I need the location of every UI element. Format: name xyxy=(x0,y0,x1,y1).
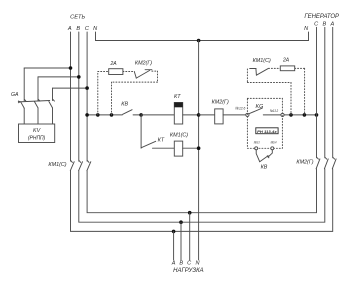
node load tap B xyxy=(179,220,183,224)
relay KV (РНПП) box xyxy=(19,124,55,143)
node fuse2 branch left xyxy=(289,113,293,117)
svg-text:КТ: КТ xyxy=(158,138,165,144)
wire KT coil to N xyxy=(183,114,199,116)
fuse FU2 2А xyxy=(280,58,294,71)
svg-text:А: А xyxy=(67,26,72,32)
svg-text:GA: GA xyxy=(11,92,19,98)
svg-text:КМ1(С): КМ1(С) xyxy=(170,133,188,139)
svg-text:КМ2(Г): КМ2(Г) xyxy=(296,160,313,166)
wire mains phase C vertical upper xyxy=(86,32,88,161)
node row2 on N xyxy=(197,146,201,150)
wire mains phase B vertical upper xyxy=(78,32,80,161)
svg-text:В: В xyxy=(323,22,327,28)
node row1 on N xyxy=(197,113,201,117)
node load tap A xyxy=(172,230,176,234)
svg-text:НАГРУЗКА: НАГРУЗКА xyxy=(173,268,203,274)
contactor КМ1(С) pole B xyxy=(79,161,83,171)
wire GA tap phase B xyxy=(38,76,79,78)
fuse FU1 2А xyxy=(109,61,123,75)
node row1 on generator C xyxy=(315,113,319,117)
wire generator phase A vertical xyxy=(332,27,334,158)
contactor КМ2(Г) pole B xyxy=(324,157,328,168)
svg-text:В: В xyxy=(179,261,183,267)
wire GA tap phase A xyxy=(24,67,70,69)
node fuse2 branch right xyxy=(303,113,307,117)
svg-text:В: В xyxy=(76,26,80,32)
svg-text:№9.4: №9.4 xyxy=(271,140,277,144)
svg-text:С: С xyxy=(85,26,90,32)
terminal circle 9.3 xyxy=(255,147,258,150)
contactor КМ2(Г) pole C xyxy=(316,157,320,168)
svg-text:СЕТЬ: СЕТЬ xyxy=(70,15,85,21)
wire control row 1 from C line xyxy=(87,114,122,116)
wire GA tap phase C xyxy=(53,87,88,89)
contact КТ (delayed) xyxy=(141,141,174,148)
load phase labels А В С N xyxy=(171,261,201,267)
generator phase labels N С В А xyxy=(304,22,334,32)
wire neutral N vertical to load xyxy=(198,41,200,261)
wire mains phase A vertical upper xyxy=(70,32,72,161)
contactor coil КМ1(С) xyxy=(170,133,188,156)
svg-text:КВ: КВ xyxy=(261,164,268,170)
svg-text:КМ1(С): КМ1(С) xyxy=(48,162,66,168)
dashed wires of generator-side fuse loop xyxy=(247,68,304,115)
terminal circle 12.6 xyxy=(246,113,249,116)
node tap B xyxy=(77,75,81,79)
switch GA mechanical link xyxy=(18,100,50,103)
svg-text:КМ2(Г): КМ2(Г) xyxy=(212,100,229,106)
contactor КМ1(С) pole C xyxy=(87,161,91,171)
node N junction xyxy=(197,39,201,43)
wire load stub B xyxy=(180,222,182,260)
node fuse branch left xyxy=(96,113,100,117)
switch GA pole 3 xyxy=(49,88,55,124)
wire bus phase A (bottom) xyxy=(71,169,333,232)
contact КВ (normally open) xyxy=(123,110,141,115)
wire mains neutral N down then across to generator xyxy=(96,32,309,41)
svg-text:КВ: КВ xyxy=(121,102,128,108)
svg-text:№13.2: №13.2 xyxy=(270,109,279,113)
svg-text:KG: KG xyxy=(256,104,264,110)
svg-text:С: С xyxy=(187,261,192,267)
node tap C xyxy=(85,86,89,90)
svg-text:(РНПП): (РНПП) xyxy=(28,136,46,142)
device label РН 113 box xyxy=(256,128,278,134)
timer coil КТ xyxy=(174,94,183,124)
relay КВ (РН 113) dashed enclosure xyxy=(247,98,282,148)
switch GA pole 1 xyxy=(21,68,27,124)
svg-text:№9.3: №9.3 xyxy=(254,140,260,144)
wire KM2 coil to KG terminal xyxy=(223,114,246,116)
svg-text:КТ: КТ xyxy=(174,94,181,100)
node tap A xyxy=(69,66,73,70)
dashed wires of mains-side fuse loop xyxy=(98,71,158,115)
svg-text:№12.6: №12.6 xyxy=(235,105,246,110)
contactor КМ2(Г) pole A xyxy=(332,157,336,168)
contact КВ changeover under РН113 xyxy=(256,150,272,162)
wire load stub C xyxy=(189,213,191,260)
node fuse branch right xyxy=(110,113,114,117)
svg-text:С: С xyxy=(314,22,319,28)
terminal circle 13.2 xyxy=(281,113,284,116)
wire branch down to KT contact xyxy=(140,115,142,148)
wire KM1 coil to N xyxy=(183,147,199,149)
wire load stub A xyxy=(173,231,175,260)
svg-text:А: А xyxy=(330,22,335,28)
node branch to KT contact xyxy=(139,113,143,117)
svg-text:КМ1(С): КМ1(С) xyxy=(253,58,271,64)
wire KG terminal to generator phase C xyxy=(284,114,316,116)
wire bus phase B (middle) xyxy=(79,169,325,222)
wire row1 to KT coil xyxy=(141,114,174,116)
contact КМ2(Г) normally closed xyxy=(134,60,152,78)
wire generator phase B vertical xyxy=(324,27,326,158)
contact KG blade xyxy=(249,108,262,114)
wire KG to terminal 13.2 xyxy=(263,114,281,116)
contactor coil КМ2(Г) xyxy=(212,100,229,124)
svg-text:2А: 2А xyxy=(282,58,290,64)
contactor КМ1(С) pole A xyxy=(70,161,74,171)
terminal circle 9.4 xyxy=(271,147,274,150)
svg-text:РН 113-4х: РН 113-4х xyxy=(257,129,277,134)
svg-text:КМ2(Г): КМ2(Г) xyxy=(135,60,152,66)
svg-text:2А: 2А xyxy=(109,61,117,67)
node control tap on C xyxy=(85,113,89,117)
node load tap C xyxy=(188,211,192,215)
svg-text:N: N xyxy=(195,261,200,267)
svg-text:N: N xyxy=(93,26,98,32)
svg-text:ГЕНЕРАТОР: ГЕНЕРАТОР xyxy=(304,14,339,20)
switch GA pole 2 xyxy=(34,77,40,124)
svg-text:А: А xyxy=(171,261,176,267)
wire N to KM2 coil xyxy=(199,114,215,116)
contact КМ1(С) normally closed xyxy=(250,58,271,75)
wire generator phase C vertical xyxy=(316,27,318,158)
wire bus phase C (top) mains to generator xyxy=(87,169,316,213)
svg-text:N: N xyxy=(304,26,309,32)
